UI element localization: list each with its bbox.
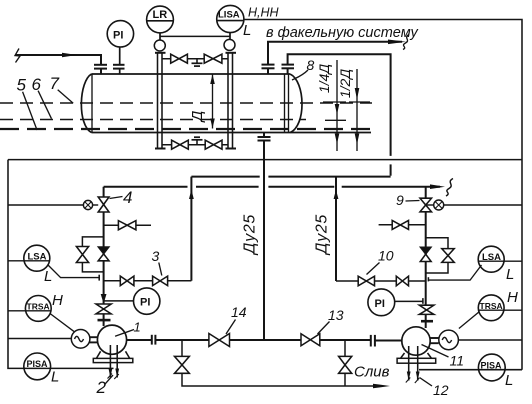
svg-text:LSA: LSA: [28, 252, 47, 263]
svg-text:TRSA: TRSA: [27, 302, 50, 312]
svg-text:LR: LR: [153, 9, 168, 21]
svg-text:L: L: [51, 369, 59, 386]
svg-text:H: H: [52, 292, 63, 309]
svg-text:PISA: PISA: [27, 359, 49, 369]
svg-text:12: 12: [433, 382, 449, 398]
svg-text:10: 10: [378, 248, 394, 264]
svg-text:Ду25: Ду25: [314, 214, 331, 256]
svg-text:Д: Д: [189, 110, 206, 123]
svg-text:Н,НН: Н,НН: [248, 6, 280, 20]
svg-text:PISA: PISA: [481, 361, 503, 371]
svg-text:11: 11: [450, 353, 465, 369]
svg-text:9: 9: [396, 192, 404, 208]
svg-text:LSA: LSA: [482, 252, 501, 263]
svg-text:1/4Д: 1/4Д: [316, 64, 332, 93]
svg-text:H: H: [507, 289, 518, 306]
svg-text:L: L: [243, 22, 251, 39]
svg-text:TRSA: TRSA: [480, 301, 503, 311]
svg-text:L: L: [505, 372, 513, 389]
svg-text:PI: PI: [113, 30, 123, 42]
svg-text:1/2Д: 1/2Д: [337, 69, 353, 98]
svg-text:LISA: LISA: [218, 10, 240, 21]
svg-text:L: L: [506, 266, 514, 283]
svg-text:в факельную систему: в факельную систему: [266, 25, 418, 41]
svg-text:PI: PI: [375, 298, 385, 310]
svg-text:1: 1: [134, 320, 141, 335]
svg-text:4: 4: [123, 188, 132, 207]
svg-text:5: 5: [17, 76, 27, 95]
svg-text:L: L: [44, 268, 52, 285]
svg-text:13: 13: [328, 307, 344, 323]
svg-text:2: 2: [96, 378, 107, 397]
svg-text:Ду25: Ду25: [242, 214, 259, 256]
svg-text:14: 14: [231, 304, 247, 320]
svg-text:3: 3: [152, 248, 160, 264]
svg-text:Слив: Слив: [354, 364, 390, 381]
svg-text:6: 6: [32, 75, 42, 94]
svg-text:7: 7: [50, 74, 60, 93]
svg-text:PI: PI: [140, 297, 150, 309]
svg-text:8: 8: [307, 57, 315, 73]
